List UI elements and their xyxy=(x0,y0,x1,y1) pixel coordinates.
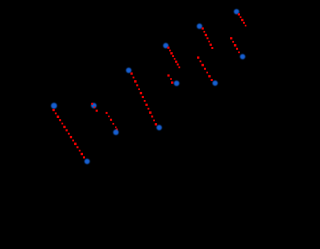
series 5 end point (blue) xyxy=(174,81,179,86)
series 2 dotted track xyxy=(91,103,98,112)
series 1 end point (blue) xyxy=(84,159,89,164)
series 1 dotted track xyxy=(52,109,85,159)
series 2 start point (blue) xyxy=(91,103,97,109)
series 3 dotted track xyxy=(130,72,157,125)
series 5 dotted track xyxy=(167,74,173,83)
series 3 start point (blue) xyxy=(126,68,131,73)
series 4 start point (blue) xyxy=(163,43,168,48)
series 4 dotted track xyxy=(167,47,180,69)
series 7 dotted track xyxy=(202,27,214,49)
series 8 end point (blue) xyxy=(240,54,245,59)
series 9 dotted track xyxy=(238,13,247,26)
series 6 end point (blue) xyxy=(212,80,217,85)
series 3 end point (blue) xyxy=(157,125,162,130)
series 9 start point (blue) xyxy=(234,9,239,14)
series 1 start point (blue) xyxy=(51,103,57,109)
series 8 dotted track xyxy=(230,37,240,53)
series 6 dotted track xyxy=(197,56,213,81)
series 7 start point (blue) xyxy=(197,24,202,29)
series 2 end point (blue) xyxy=(113,130,119,136)
series 2 dotted track xyxy=(106,112,118,131)
